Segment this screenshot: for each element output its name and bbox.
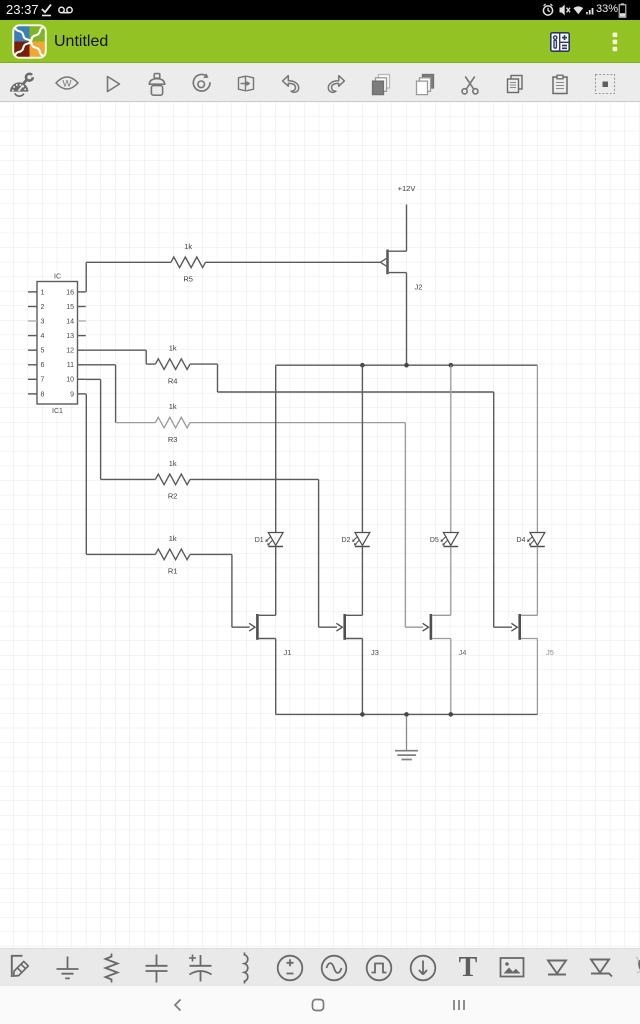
wire top bus node: [276, 364, 538, 366]
toolbar icon cut: [459, 73, 481, 96]
component icon dc source: [275, 953, 305, 983]
svg-text:J4: J4: [459, 648, 467, 657]
LED D2: [352, 533, 370, 547]
svg-text:8: 8: [41, 391, 45, 398]
svg-text:1k: 1k: [169, 402, 177, 411]
toolbar icon redo: [325, 72, 347, 96]
value label 1k (R4): [169, 344, 177, 353]
label D4: [516, 537, 525, 544]
toolbar icon preview: [55, 74, 79, 92]
svg-text:R1: R1: [168, 567, 178, 576]
wire top bus to D2 anode: [361, 365, 363, 532]
value label 1k (R2): [169, 459, 177, 468]
wire D1 cathode to J1 drain: [275, 547, 277, 616]
svg-text:10: 10: [66, 377, 74, 384]
wire bus to ground: [406, 716, 408, 750]
component icon capacitor: [143, 953, 170, 984]
svg-text:1k: 1k: [169, 459, 177, 468]
svg-text:D4: D4: [516, 537, 525, 544]
label D1: [255, 537, 264, 544]
label J3: [371, 648, 379, 657]
wire top bus to D1 anode: [275, 365, 277, 532]
svg-text:9: 9: [70, 391, 74, 398]
value label 1k (R5): [184, 242, 192, 251]
ground: [395, 751, 418, 760]
transistor J2: [380, 250, 406, 275]
wire D5 cathode to J4 drain: [450, 547, 452, 616]
svg-text:15: 15: [66, 304, 74, 311]
svg-text:J1: J1: [284, 648, 292, 657]
wire D4 cathode to J5 drain: [536, 547, 538, 616]
label R4: [168, 376, 178, 385]
svg-text:T: T: [458, 952, 477, 983]
transistor J3: [336, 614, 362, 640]
app bar: [0, 20, 640, 63]
toolbar icon undo: [280, 72, 302, 96]
transistor J4: [423, 614, 451, 640]
label J2: [415, 282, 423, 291]
toolbar icon duplicate: [370, 72, 392, 97]
svg-text:7: 7: [41, 377, 45, 384]
svg-text:R2: R2: [168, 492, 178, 501]
toolbar icon select: [593, 72, 617, 96]
junction dot bottom bus left: [360, 712, 365, 717]
toolbar icon tools: [8, 69, 36, 98]
svg-text:4: 4: [41, 333, 45, 340]
bottom component toolbar: [0, 948, 640, 985]
component icon resistor: [98, 952, 125, 984]
component icon draw tool: [9, 953, 37, 982]
LED D1: [265, 533, 283, 547]
label D2: [341, 537, 350, 544]
component icon pulse source: [364, 953, 394, 983]
wire pin10 to R2: [86, 379, 156, 479]
svg-text:J2: J2: [415, 282, 423, 291]
svg-text:IC1: IC1: [52, 408, 63, 415]
wire J3 source to bottom bus: [361, 639, 363, 715]
label R1: [168, 567, 178, 576]
svg-text:1k: 1k: [169, 344, 177, 353]
wire J1 source to bottom bus: [275, 639, 277, 715]
component icon polarized capacitor: [186, 952, 215, 984]
toolbar icon copy: [504, 73, 526, 96]
resistor R2: [155, 474, 190, 485]
junction dot top bus middle (J2 source): [404, 363, 409, 368]
wire J2 source to top bus: [406, 273, 408, 366]
wire pin12 to R4: [86, 350, 156, 364]
component icon image: [498, 953, 526, 982]
wire pin11 down: [86, 365, 116, 423]
wire R2 to J3 gate: [190, 479, 337, 627]
toolbar icon delete: [146, 72, 168, 97]
component icon partial: [636, 951, 640, 981]
IC label IC1: [52, 408, 63, 415]
toolbar icon flip: [235, 73, 257, 95]
component icon text: [454, 951, 482, 983]
svg-text:R5: R5: [183, 275, 193, 284]
component icon ac source: [319, 953, 349, 983]
label J4: [459, 648, 467, 657]
svg-text:3: 3: [41, 318, 45, 325]
svg-text:R4: R4: [168, 376, 178, 385]
svg-text:D5: D5: [430, 537, 439, 544]
toolbar icon rotate: [190, 72, 213, 96]
label R3: [168, 435, 178, 444]
app icon: [12, 24, 47, 59]
svg-text:16: 16: [66, 289, 74, 296]
resistor R3: [155, 417, 190, 428]
IC label IC: [54, 274, 61, 281]
svg-text:J3: J3: [371, 648, 379, 657]
status bar: [0, 0, 640, 20]
navigation bar: [0, 985, 640, 1024]
wire top bus to D5 anode: [450, 365, 452, 532]
svg-text:W: W: [63, 78, 72, 89]
wire pin16 to R5: [86, 262, 171, 292]
toolbar icon paste: [549, 73, 571, 96]
junction dot top bus left: [360, 363, 365, 368]
junction dot bottom bus middle (ground): [404, 712, 409, 717]
svg-text:D2: D2: [341, 537, 350, 544]
svg-text:IC: IC: [54, 274, 61, 281]
label R2: [168, 492, 178, 501]
component icon zener diode: [586, 953, 616, 982]
resistor R1: [155, 549, 190, 560]
overflow menu: [610, 31, 620, 53]
wire R3 to J4 gate: [190, 423, 423, 628]
power label +12V: [398, 184, 416, 193]
wire R4 to J5 gate: [190, 364, 512, 627]
wire into R3: [116, 422, 156, 424]
LED D5: [441, 533, 459, 547]
svg-text:+12V: +12V: [398, 184, 416, 193]
component icon diode: [543, 954, 571, 981]
label J5: [546, 648, 554, 657]
svg-text:6: 6: [41, 362, 45, 369]
svg-text:13: 13: [66, 333, 74, 340]
component icon inductor: [232, 951, 258, 985]
label R5: [183, 275, 193, 284]
IC U1 (16-pin DIP): [28, 282, 86, 405]
svg-text:2: 2: [41, 304, 45, 311]
top toolbar: [0, 63, 640, 102]
junction dot bottom bus right: [449, 712, 454, 717]
LED D4: [527, 533, 545, 547]
wire J5 source to bottom bus: [536, 639, 538, 715]
svg-text:5: 5: [41, 348, 45, 355]
wire J4 source to bottom bus: [450, 639, 452, 715]
transistor J5: [511, 614, 537, 640]
wire D2 cathode to J3 drain: [361, 547, 363, 616]
component icon current source: [408, 953, 438, 983]
svg-text:12: 12: [66, 348, 74, 355]
svg-text:14: 14: [66, 318, 74, 325]
svg-text:1: 1: [41, 289, 45, 296]
wire +12V to J2 drain: [406, 205, 408, 252]
label J1: [284, 648, 292, 657]
svg-text:R3: R3: [168, 435, 178, 444]
svg-text:J5: J5: [546, 648, 554, 657]
value label 1k (R1): [169, 534, 177, 543]
svg-text:1k: 1k: [184, 242, 192, 251]
transistor J1: [249, 614, 276, 640]
resistor R4: [155, 359, 190, 370]
wire bottom bus node: [276, 713, 538, 715]
svg-text:D1: D1: [255, 537, 264, 544]
wire R5 to J2 gate: [206, 261, 381, 263]
svg-text:11: 11: [67, 362, 74, 369]
toolbar icon run: [101, 73, 123, 95]
junction dot top bus right: [449, 363, 454, 368]
svg-text:1k: 1k: [169, 534, 177, 543]
component icon ground: [54, 954, 81, 982]
wire top bus to D4 anode: [536, 365, 538, 532]
toolbar icon duplicate-alt: [414, 72, 436, 97]
label D5: [430, 537, 439, 544]
resistor R5: [171, 257, 206, 268]
value label 1k (R3): [169, 402, 177, 411]
values icon: [550, 32, 570, 52]
wire R1 to J1 gate: [190, 554, 250, 627]
wire pin9 to R1: [86, 394, 155, 555]
